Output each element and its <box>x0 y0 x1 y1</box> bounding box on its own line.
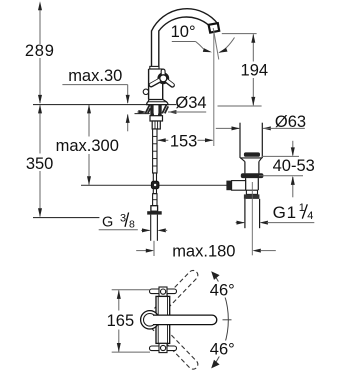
10deg right arrowhead <box>218 48 227 53</box>
top handle bar <box>150 289 177 294</box>
svg-text:194: 194 <box>241 62 269 80</box>
dim G3/8 arrows <box>141 229 150 231</box>
svg-text:Ø63: Ø63 <box>275 113 306 131</box>
dim 289 line <box>39 9 41 45</box>
dim max.300 line <box>88 105 90 137</box>
body seal ring <box>241 173 264 178</box>
dim G3/8 underline <box>99 229 138 231</box>
segmented supply hose lower <box>153 194 157 206</box>
rod fitting lower stub <box>153 189 156 194</box>
solid spout (top view) <box>153 315 217 325</box>
dim O63 arrows + underline <box>216 127 239 129</box>
handle hub <box>160 75 167 82</box>
dim 165 <box>112 289 150 291</box>
handle back disc <box>157 72 169 84</box>
side port body <box>232 181 246 191</box>
dim 153 <box>158 139 168 141</box>
dim O34 arrows <box>137 111 146 113</box>
pop-up knob on body <box>143 89 148 94</box>
body mid section <box>246 190 257 194</box>
escutcheon mid line <box>148 101 167 103</box>
svg-text:max.30: max.30 <box>68 67 122 85</box>
shank stub above nut <box>152 114 154 116</box>
riser collar <box>150 66 159 69</box>
spout outlet aerator <box>209 23 220 32</box>
riser pipe <box>151 31 153 67</box>
shank through deck <box>150 105 153 116</box>
svg-text:350: 350 <box>26 155 54 173</box>
segmented supply hose upper <box>153 129 157 173</box>
G3/8 slash <box>125 213 129 227</box>
bottom handle bar <box>150 346 177 351</box>
svg-text:3: 3 <box>120 212 126 224</box>
svg-text:8: 8 <box>129 218 135 230</box>
drain centerline <box>251 182 253 255</box>
dim max.180 <box>136 250 146 252</box>
svg-text:max.180: max.180 <box>172 243 235 261</box>
arc bottom arrowhead <box>211 360 219 369</box>
svg-text:46°: 46° <box>210 282 235 300</box>
base inner circle <box>144 314 157 327</box>
dim 350 bottom ref line <box>33 217 99 219</box>
svg-text:289: 289 <box>25 42 55 60</box>
body top line <box>149 68 163 70</box>
max.180 left extension tick <box>153 241 155 256</box>
spout axis vertical <box>213 33 215 146</box>
deck hatch left <box>145 105 150 114</box>
faucet spout inner arc <box>159 17 209 31</box>
top handle hub <box>159 287 167 296</box>
G1 1/4 slash <box>302 204 307 218</box>
zero ref tick <box>223 319 232 321</box>
tailpipe <box>244 199 246 228</box>
deck top line <box>33 104 176 106</box>
dim 40-53 <box>292 141 294 156</box>
thread band <box>244 194 260 199</box>
flange seal band <box>244 152 260 156</box>
spout outlet tilted axis <box>213 28 219 60</box>
svg-text:10°: 10° <box>171 23 196 41</box>
pop-up rod line <box>81 184 227 186</box>
svg-text:4: 4 <box>307 210 313 222</box>
mounting nut body <box>152 121 160 129</box>
G3/8 tailpiece upper <box>151 206 158 212</box>
10deg underline + leader <box>172 41 196 43</box>
dashed swivel spout -46 <box>149 319 199 371</box>
faucet body <box>148 69 150 100</box>
dim 350 line <box>39 105 41 153</box>
deck bottom line <box>135 113 150 115</box>
flange bottom line <box>240 157 262 159</box>
rod fitting upper stub <box>153 173 156 182</box>
10deg left arrowhead <box>203 48 212 52</box>
escutcheon <box>147 100 168 105</box>
cross handle arms <box>151 71 172 85</box>
dim max.30 underline + leader <box>62 84 127 86</box>
svg-text:46°: 46° <box>210 341 235 359</box>
G3/8 tailpiece hex <box>147 211 162 214</box>
drain pipe above flange <box>239 123 241 158</box>
dim O34 underline <box>168 111 206 113</box>
base outer circle <box>141 311 159 329</box>
svg-text:Ø34: Ø34 <box>175 94 206 112</box>
top view body column <box>156 296 170 343</box>
10deg angle arc <box>220 38 235 53</box>
rod clamp knob <box>151 181 159 188</box>
dim 194 line <box>252 34 254 61</box>
label 46deg top <box>208 282 236 298</box>
drain body lower <box>245 178 247 190</box>
svg-text:165: 165 <box>107 312 135 330</box>
svg-text:G: G <box>102 215 113 231</box>
dashed swivel spout +46 <box>149 268 199 320</box>
svg-text:40-53: 40-53 <box>273 157 315 175</box>
label 46deg bottom <box>208 341 236 357</box>
svg-text:G1: G1 <box>273 203 297 222</box>
swivel arc <box>213 273 228 366</box>
mounting nut flange <box>150 116 163 121</box>
dim G1 1/4 arrows + underline <box>236 222 245 224</box>
flange flare <box>241 158 245 162</box>
deck hatch right <box>162 105 168 114</box>
svg-text:max.300: max.300 <box>56 137 119 155</box>
side port face <box>226 181 231 191</box>
bottom handle hub <box>159 343 167 352</box>
flexible hose <box>150 215 152 241</box>
faucet spout outer arc <box>152 9 219 31</box>
dim 194 top ref <box>222 33 257 35</box>
drain body upper <box>244 161 246 173</box>
svg-text:153: 153 <box>170 132 198 150</box>
arc top arrowhead <box>211 271 219 280</box>
dim 194 bottom ref / deck ext <box>218 105 262 107</box>
